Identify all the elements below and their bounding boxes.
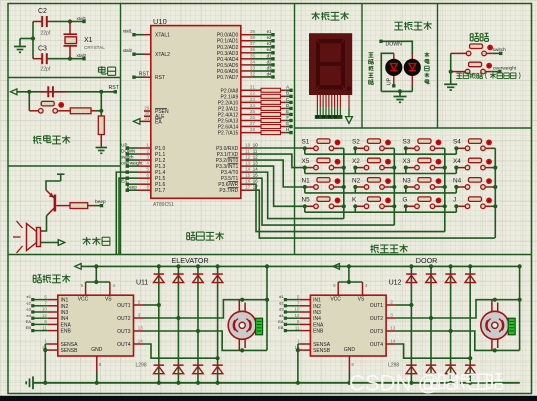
svg-text:10: 10	[295, 307, 300, 312]
power terminal elevator	[75, 264, 81, 270]
wire P3.4 to keypad col1	[253, 172, 344, 218]
wire power to Q1	[46, 181, 61, 190]
wire right vertical reset	[100, 92, 102, 116]
label down-indicator vertical	[424, 52, 429, 57]
svg-text:ENB: ENB	[61, 329, 72, 335]
ground reset	[96, 147, 108, 149]
svg-text:16: 16	[253, 179, 258, 184]
svg-text:13: 13	[138, 325, 143, 330]
U11 pin GND	[96, 356, 98, 371]
svg-text:GND: GND	[91, 347, 103, 353]
svg-text:21: 21	[250, 85, 255, 90]
U12 SENS wire to ground rail	[297, 344, 299, 383]
pin P0.4	[241, 58, 253, 60]
U12 pin OUT1	[386, 304, 396, 306]
pin P1.0	[137, 147, 151, 149]
svg-text:e1: e1	[267, 29, 272, 34]
pin P3.4	[241, 171, 253, 173]
pin P0.6	[241, 70, 253, 72]
pin EA	[140, 120, 151, 122]
svg-text:OUT4: OUT4	[370, 342, 384, 348]
svg-text:d2: d2	[267, 59, 272, 64]
svg-text:37: 37	[250, 41, 255, 46]
svg-text:J: J	[453, 197, 456, 204]
U12 pin OUT3	[386, 330, 396, 332]
power rail top	[81, 265, 520, 267]
svg-text:B: B	[286, 91, 289, 96]
U11 freewheel diodes top	[154, 273, 165, 275]
U12 pin IN3	[300, 311, 311, 313]
svg-text:EB: EB	[278, 325, 284, 330]
svg-text:K: K	[352, 197, 357, 204]
U12 pin IN1	[300, 299, 311, 301]
svg-text:10: 10	[245, 142, 250, 147]
U11 diode columns	[158, 266, 160, 382]
ground crystal	[14, 46, 26, 48]
pin P0.0	[241, 34, 253, 36]
U12 pin OUT4	[386, 343, 396, 345]
U12 wire OUT1	[396, 304, 412, 306]
pin P3.7	[241, 189, 253, 191]
wire P3.5 to keypad col2	[253, 178, 395, 225]
svg-text:EA: EA	[26, 319, 32, 324]
pin P0.3	[241, 52, 253, 54]
svg-text:beep: beep	[127, 185, 137, 190]
svg-text:27: 27	[250, 121, 255, 126]
svg-text:12: 12	[245, 154, 250, 159]
svg-text:36: 36	[250, 47, 255, 52]
pin P0.1	[241, 40, 253, 42]
svg-text:d3: d3	[279, 307, 284, 312]
svg-text:11: 11	[42, 325, 47, 330]
svg-text:35: 35	[250, 53, 255, 58]
node DOWN	[379, 40, 382, 43]
U11 pin OUT4	[134, 343, 144, 345]
capacitor C2	[41, 16, 43, 27]
pin P1.4	[137, 171, 151, 173]
svg-text:IN2: IN2	[61, 304, 69, 310]
svg-text:ENA: ENA	[61, 322, 72, 328]
U12 freewheel diodes bottom	[406, 364, 417, 366]
svg-text:EA: EA	[155, 119, 162, 125]
divider display/indicator	[361, 4, 363, 129]
divider indicator/switch	[437, 4, 439, 129]
pin P3.2	[241, 159, 253, 161]
svg-text:24: 24	[250, 103, 255, 108]
svg-text:F: F	[286, 115, 289, 120]
U11 pin IN1	[47, 299, 58, 301]
pin P0.5	[241, 64, 253, 66]
capacitor C1 reset	[47, 86, 49, 97]
svg-text:G: G	[286, 121, 290, 126]
pin P2.7 with resistor	[241, 132, 261, 134]
U12 pin SENSA	[300, 343, 311, 345]
wire to ground	[20, 38, 33, 40]
svg-text:OUT2: OUT2	[370, 316, 384, 322]
svg-text:e1: e1	[27, 294, 32, 299]
speaker LS1	[37, 228, 41, 247]
svg-text:GND: GND	[344, 347, 356, 353]
U12 pin ENA	[300, 323, 311, 325]
U12 wire OUT2 to motor top	[396, 300, 520, 318]
svg-text:xtal1: xtal1	[77, 16, 87, 21]
U12 diode columns	[410, 266, 412, 382]
svg-text:X5: X5	[302, 158, 310, 165]
svg-text:d1: d1	[279, 294, 284, 299]
divider below crystal section	[8, 77, 121, 79]
pin P3.6	[241, 183, 253, 185]
U11 pin OUT2	[134, 317, 144, 319]
svg-text:SENSA: SENSA	[61, 342, 79, 348]
svg-text:13: 13	[245, 160, 250, 165]
wire C3 to xtal2	[47, 58, 84, 60]
U11 SENS wire to ground rail	[44, 344, 46, 383]
label crystal section	[98, 66, 106, 74]
svg-text:C2: C2	[38, 8, 47, 15]
label main-control section	[187, 232, 195, 240]
svg-text:14: 14	[390, 338, 395, 343]
LED D10 DOWN	[411, 54, 413, 86]
U12 pin ENB	[300, 330, 311, 332]
svg-text:P3.7/RD: P3.7/RD	[219, 188, 238, 194]
svg-text:31: 31	[144, 116, 149, 121]
svg-text:IN3: IN3	[61, 310, 69, 316]
svg-text:17: 17	[245, 185, 250, 190]
svg-text:12: 12	[42, 313, 47, 318]
svg-text:ENB: ENB	[313, 329, 324, 335]
svg-text:15: 15	[253, 173, 258, 178]
svg-text:N2: N2	[352, 177, 361, 184]
pin P3.5	[241, 177, 253, 179]
svg-text:N4: N4	[453, 177, 462, 184]
pin P1.6	[137, 183, 151, 185]
left vertical wire	[32, 22, 34, 59]
svg-text:22: 22	[250, 91, 255, 96]
wire button to R1	[58, 110, 71, 112]
wire C2 left to ground rail	[33, 21, 42, 23]
U12 motor	[491, 300, 493, 313]
svg-text:S2: S2	[352, 139, 360, 146]
U11 wire OUT2 to motor top	[143, 300, 267, 318]
U12 wire OUT3 to motor bottom	[396, 331, 520, 350]
svg-text:switch: switch	[493, 47, 507, 53]
svg-text:28: 28	[250, 127, 255, 132]
7-segment pins	[316, 95, 318, 107]
pin RST	[144, 76, 151, 78]
label keypad section	[370, 245, 378, 253]
ground switch	[444, 83, 457, 85]
U11 motor right vertical	[266, 266, 268, 350]
pin P3.1	[241, 153, 253, 155]
node UP	[392, 84, 395, 87]
U12 motor connector	[508, 318, 515, 335]
svg-text:L298: L298	[388, 363, 399, 369]
resistor R1	[70, 108, 91, 114]
svg-text:IN1: IN1	[313, 298, 321, 304]
svg-text:d4: d4	[279, 313, 284, 318]
svg-text:e4: e4	[27, 313, 32, 318]
U12 pin GND	[348, 356, 350, 371]
resistor R3	[70, 203, 88, 209]
svg-text:14: 14	[245, 167, 250, 172]
svg-text:14: 14	[253, 167, 258, 172]
wire C3 left	[33, 58, 42, 60]
U11 pin IN3	[47, 311, 58, 313]
svg-text:ELEVATOR: ELEVATOR	[172, 256, 209, 265]
wire down to reset button	[28, 92, 30, 111]
pin XTAL1	[144, 34, 151, 36]
wire reset main	[17, 91, 115, 93]
svg-text:X3: X3	[403, 158, 411, 165]
keypad row nets	[304, 148, 306, 154]
node RST	[114, 90, 117, 93]
svg-text:IN4: IN4	[313, 316, 321, 322]
svg-text:EA: EA	[278, 319, 284, 324]
svg-text:EB: EB	[26, 325, 32, 330]
svg-text:IN3: IN3	[313, 310, 321, 316]
svg-text:VS: VS	[358, 296, 365, 302]
svg-text:RST: RST	[109, 85, 120, 91]
svg-text:N5: N5	[302, 197, 311, 204]
U12 pin IN2	[300, 305, 311, 307]
transistor Q1	[54, 195, 57, 212]
U11 freewheel diodes bottom	[154, 364, 165, 366]
svg-text:A: A	[286, 85, 289, 90]
svg-text:SENSA: SENSA	[313, 342, 331, 348]
svg-text:25: 25	[250, 109, 255, 114]
divider center/display	[294, 4, 296, 255]
divider above motor sections	[8, 254, 532, 256]
divider left-column/center	[120, 4, 122, 255]
svg-text:D: D	[286, 103, 289, 108]
power terminal buzzer	[57, 173, 65, 175]
svg-text:33: 33	[250, 65, 255, 70]
pin P3.0	[241, 147, 253, 149]
svg-text:N1: N1	[302, 177, 311, 184]
svg-text:e2: e2	[27, 300, 32, 305]
U12 motor right vertical	[519, 266, 521, 350]
svg-text:EA: EA	[121, 179, 127, 184]
svg-text:OUT1: OUT1	[370, 303, 384, 309]
svg-text:U10: U10	[153, 17, 167, 26]
svg-text:e3: e3	[267, 41, 272, 46]
U11 wire OUT1	[143, 304, 159, 306]
U11 pin SENSA	[47, 343, 58, 345]
U11 wire OUT4	[143, 344, 218, 358]
svg-text:12: 12	[295, 313, 300, 318]
U11 pin ENA	[47, 323, 58, 325]
svg-text:N3: N3	[403, 177, 412, 184]
U11 pin SENSB	[47, 349, 58, 351]
svg-text:DOOR: DOOR	[416, 256, 438, 265]
svg-text:e4: e4	[267, 47, 272, 52]
node beep	[100, 204, 103, 207]
wire LEDs to ground	[411, 86, 413, 92]
wire speaker to output	[41, 242, 58, 244]
svg-text:X1: X1	[84, 37, 93, 44]
svg-text:e2: e2	[267, 35, 272, 40]
svg-text:xtal2: xtal2	[77, 53, 87, 58]
wire P1.5 to bottom	[119, 178, 127, 254]
pin P1.7	[137, 189, 151, 191]
node xtal2	[68, 57, 72, 61]
window bottom strip	[0, 396, 537, 401]
output terminal buzzer	[58, 240, 64, 246]
wire Q1 collector to speaker	[41, 216, 47, 231]
svg-text:11: 11	[245, 148, 250, 153]
7-segment display body	[309, 33, 352, 95]
resistor R2 vertical	[98, 116, 104, 135]
svg-text:DOWN: DOWN	[121, 148, 135, 153]
svg-text:xtal1: xtal1	[123, 28, 133, 33]
pin P2.5 with resistor	[241, 120, 261, 122]
U12 freewheel diodes top	[406, 273, 417, 275]
U11 wire OUT3 to motor bottom	[143, 331, 267, 350]
wire P1.4 to bottom	[116, 172, 127, 254]
pin P1.3	[137, 165, 151, 167]
svg-text:SENSB: SENSB	[313, 348, 331, 354]
svg-text:16: 16	[245, 179, 250, 184]
pin P0.2	[241, 46, 253, 48]
label display section	[311, 12, 319, 20]
svg-text:CRYSTAL: CRYSTAL	[84, 45, 105, 50]
svg-text:10: 10	[253, 142, 258, 147]
wire DOWN to LED D10	[381, 41, 412, 54]
U11 pin ENB	[47, 330, 58, 332]
label reset section	[33, 136, 41, 144]
pin P2.0 with resistor	[241, 89, 261, 91]
label main-switch section	[470, 33, 479, 41]
ground motor rail	[32, 376, 34, 389]
svg-text:X2: X2	[352, 158, 360, 165]
7-segment segments digit 8	[316, 39, 351, 91]
U12 wire OUT4	[396, 344, 471, 358]
svg-text:RST: RST	[139, 71, 149, 77]
reset button	[41, 101, 54, 106]
U11 pin OUT1	[134, 304, 144, 306]
pin PSEN	[144, 110, 151, 112]
U11 VCC VS pins	[85, 282, 87, 295]
pin P0.7	[241, 76, 253, 78]
svg-text:39: 39	[250, 29, 255, 34]
svg-text:U11: U11	[136, 280, 148, 287]
svg-text:13: 13	[253, 160, 258, 165]
svg-text:AT89C51: AT89C51	[153, 202, 174, 208]
U11 motor	[238, 300, 240, 313]
svg-text:X4: X4	[453, 158, 461, 165]
svg-text:d2: d2	[279, 300, 284, 305]
svg-text:G: G	[403, 197, 408, 204]
svg-text:OUT4: OUT4	[117, 342, 131, 348]
pin P1.1	[137, 153, 151, 155]
svg-text:34: 34	[250, 59, 255, 64]
wire C2 to xtal1	[47, 21, 84, 23]
divider below reset section	[8, 165, 121, 167]
U12 VCC VS pins	[337, 282, 339, 295]
pin ALE	[144, 115, 151, 117]
divider below display/indicator/switch row	[295, 127, 532, 129]
svg-text:P2.7/A15: P2.7/A15	[218, 131, 239, 137]
svg-text:26: 26	[250, 115, 255, 120]
svg-text:ENA: ENA	[313, 322, 324, 328]
svg-text:11: 11	[253, 148, 258, 153]
svg-text:XTAL1: XTAL1	[155, 33, 170, 39]
bottom ground rail	[33, 382, 520, 384]
U11 pin OUT3	[134, 330, 144, 332]
svg-text:H: H	[286, 127, 289, 132]
svg-text:XTAL2: XTAL2	[155, 52, 170, 58]
svg-text:38: 38	[250, 35, 255, 40]
7-segment terminal bar	[315, 115, 343, 119]
svg-text:VCC: VCC	[330, 296, 341, 302]
wire P3.1 to keypad row2	[253, 154, 305, 168]
LED D9 UP	[393, 53, 395, 85]
wire P3.2 to keypad row3	[253, 160, 305, 187]
svg-text:OUT2: OUT2	[117, 316, 131, 322]
wire P3.3 to keypad row4	[253, 166, 305, 206]
label motor-circuit section	[33, 275, 41, 283]
wire P3.0 to keypad row1	[253, 147, 305, 149]
power terminal door	[333, 264, 339, 270]
crystal X1	[69, 22, 71, 35]
U11 pin IN2	[47, 305, 58, 307]
svg-text:S4: S4	[453, 139, 461, 146]
pin P2.3 with resistor	[241, 107, 261, 109]
ground indicator	[394, 96, 407, 98]
node xtal1	[68, 19, 72, 23]
svg-text:13: 13	[390, 325, 395, 330]
svg-text:OUT3: OUT3	[370, 329, 384, 335]
7-segment ground pin	[348, 95, 350, 107]
svg-text:U12: U12	[389, 280, 402, 287]
svg-text:P0.7/AD7: P0.7/AD7	[217, 75, 239, 81]
svg-text:VS: VS	[105, 296, 112, 302]
pin P3.3	[241, 165, 253, 167]
svg-text:22pf: 22pf	[41, 31, 51, 37]
wire LED D9 top bracket	[381, 53, 394, 91]
U11 motor connector	[256, 318, 263, 335]
svg-text:IN4: IN4	[61, 316, 69, 322]
svg-text:E: E	[286, 109, 289, 114]
svg-text:15: 15	[245, 173, 250, 178]
U12 pin OUT2	[386, 317, 396, 319]
svg-text:UP: UP	[387, 77, 393, 85]
svg-text:OUT3: OUT3	[117, 329, 131, 335]
pin P1.2	[137, 159, 151, 161]
label indicator section	[394, 22, 403, 30]
input terminal reset	[11, 89, 17, 95]
svg-text:P1.7: P1.7	[155, 188, 166, 194]
svg-text:d4: d4	[267, 71, 272, 76]
pin P1.5	[137, 177, 151, 179]
svg-text:e3: e3	[27, 307, 32, 312]
svg-text:VCC: VCC	[78, 296, 89, 302]
svg-text:RST: RST	[155, 75, 165, 81]
svg-text:beep: beep	[95, 199, 106, 205]
switch button	[470, 44, 483, 49]
wire Q1 base to R3	[56, 205, 70, 207]
svg-text:IN1: IN1	[61, 298, 69, 304]
svg-text:IN2: IN2	[313, 304, 321, 310]
pin P2.2 with resistor	[241, 101, 261, 103]
svg-text:32: 32	[250, 71, 255, 76]
svg-text:11: 11	[295, 325, 300, 330]
svg-text:23: 23	[250, 97, 255, 102]
svg-text:C: C	[286, 97, 289, 102]
svg-text:OUT1: OUT1	[117, 303, 131, 309]
label buzzer section	[82, 237, 90, 245]
svg-text:overweight: overweight	[493, 65, 517, 71]
